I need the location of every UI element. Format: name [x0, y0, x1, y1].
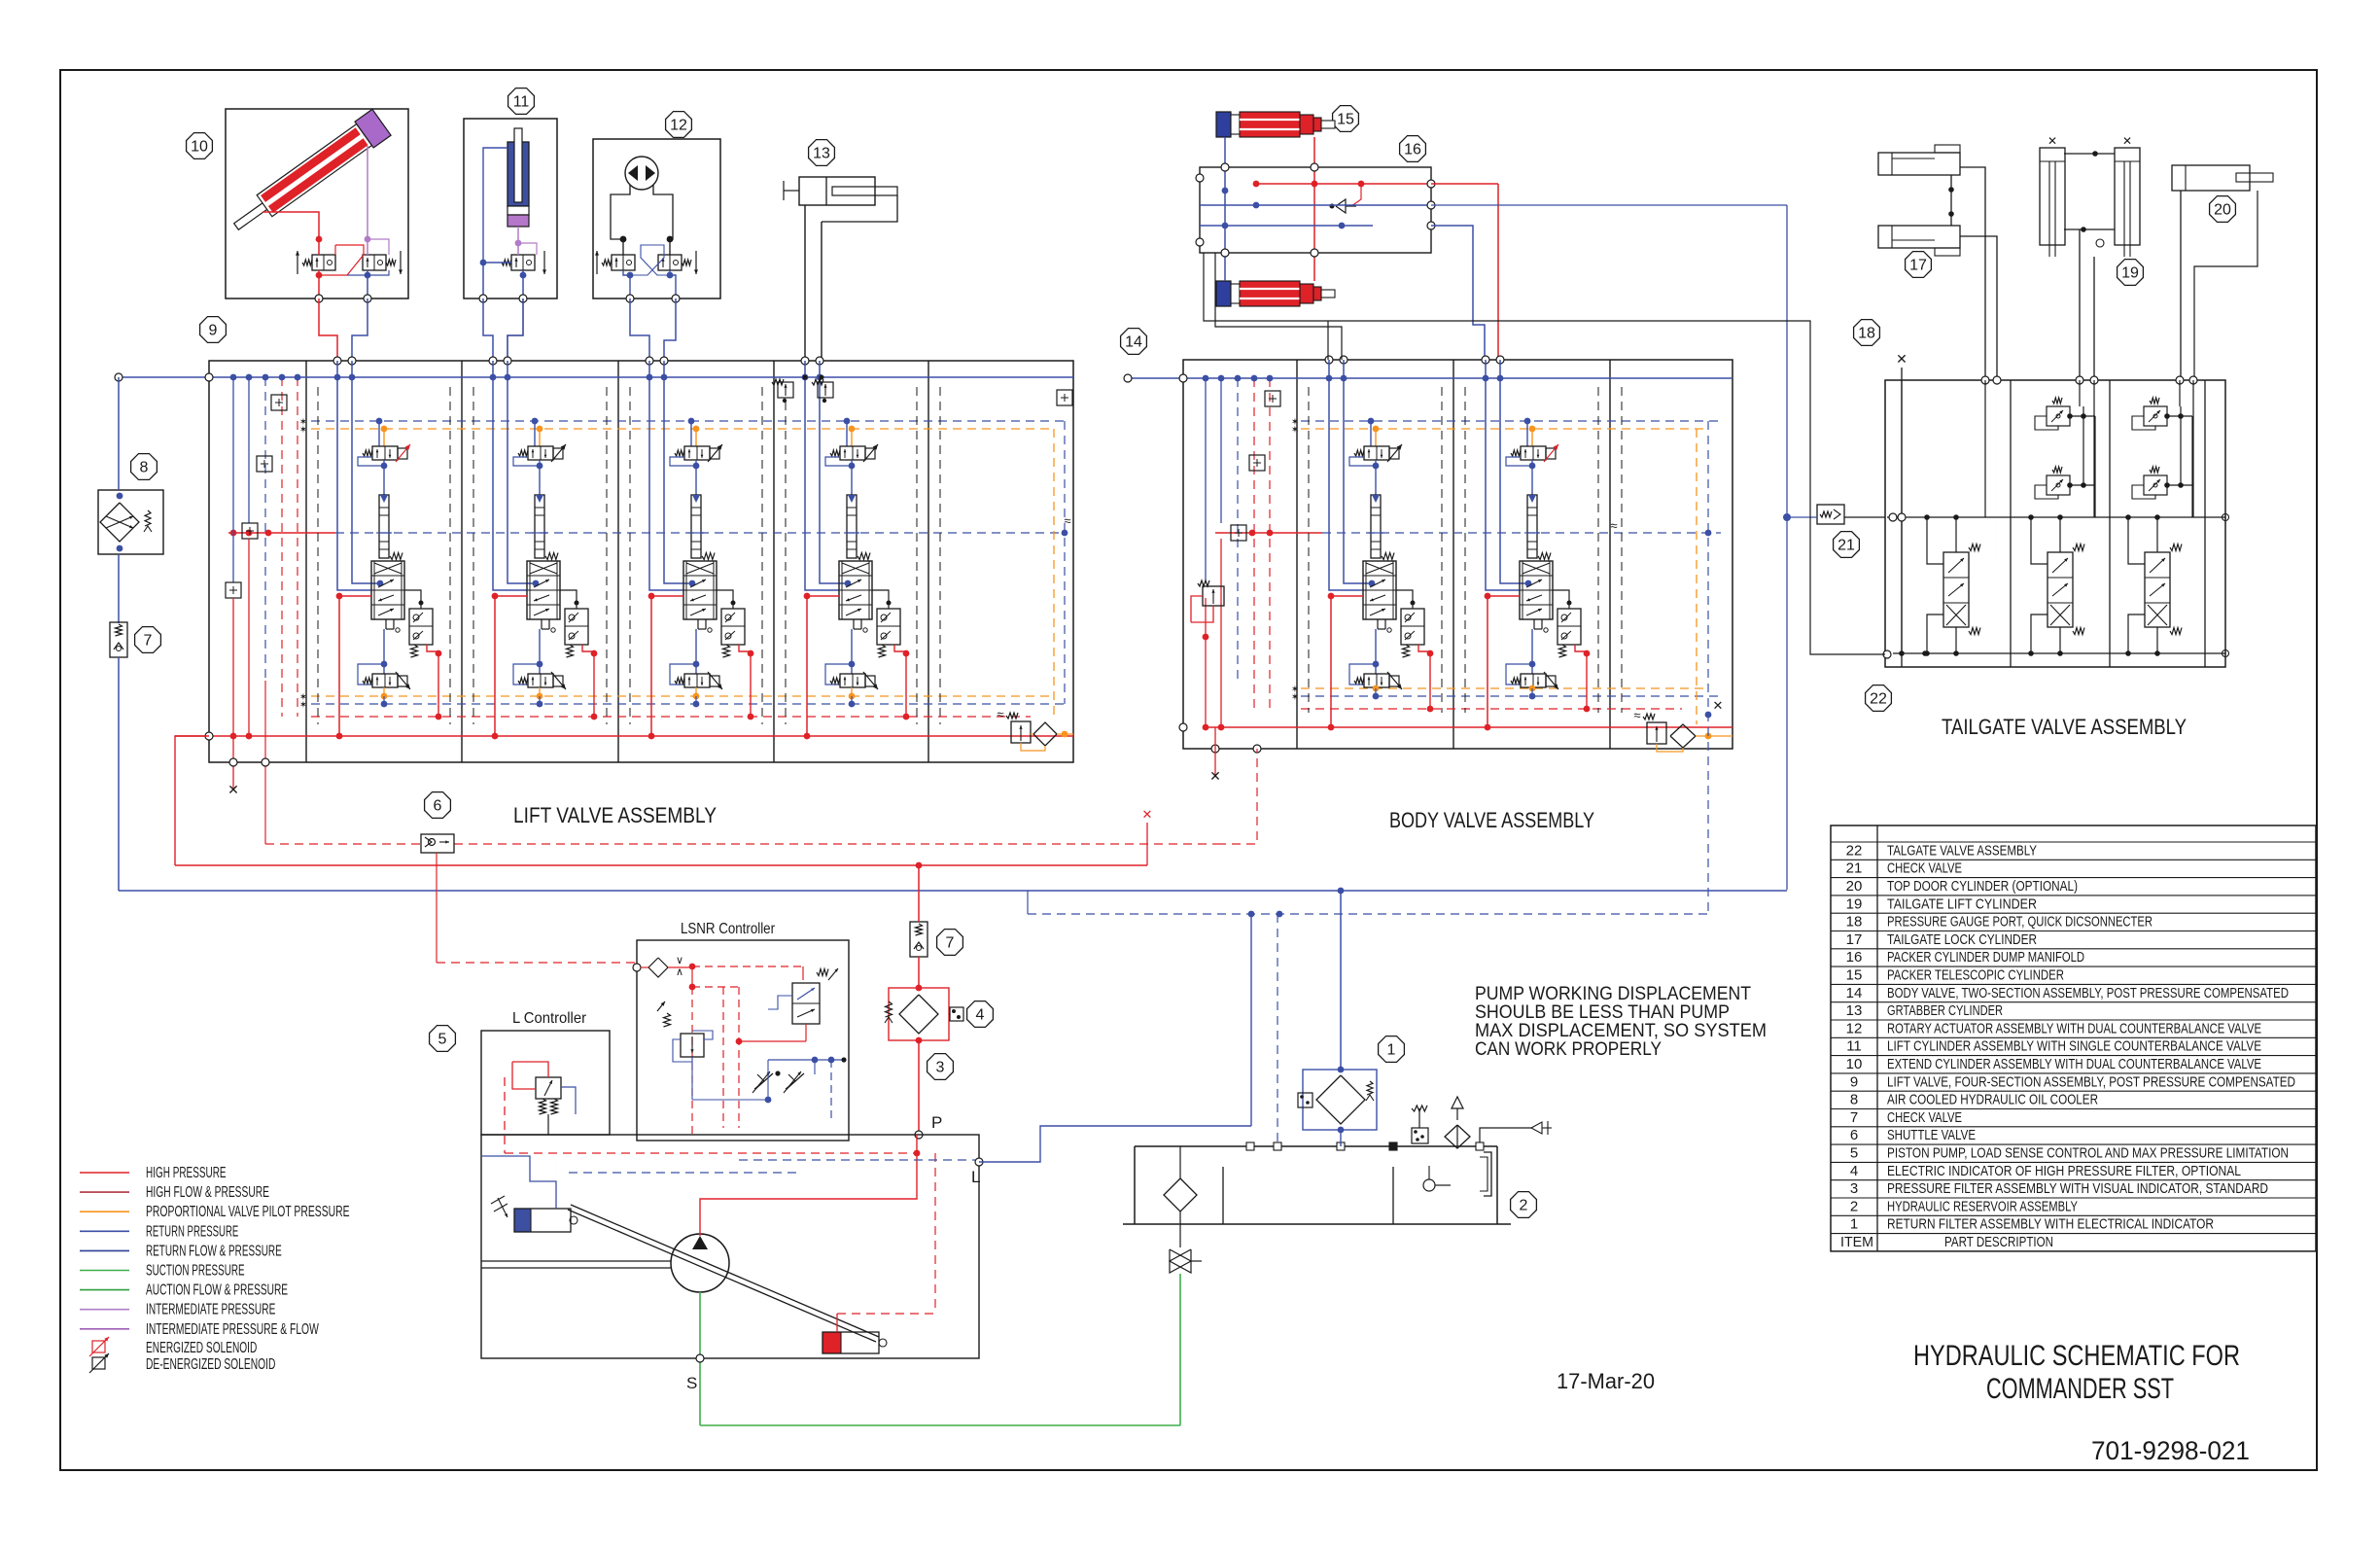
- svg-text:6: 6: [1850, 1127, 1858, 1143]
- svg-text:5: 5: [1850, 1145, 1858, 1162]
- svg-text:✕: ✕: [1142, 807, 1153, 822]
- svg-text:✶: ✶: [1291, 425, 1299, 436]
- svg-text:20: 20: [1846, 878, 1863, 895]
- svg-text:LSNR Controller: LSNR Controller: [681, 921, 776, 937]
- svg-text:9: 9: [1850, 1073, 1858, 1090]
- svg-text:PRESSURE GAUGE PORT, QUICK DIC: PRESSURE GAUGE PORT, QUICK DICSONNECTER: [1887, 914, 2152, 931]
- svg-text:PRESSURE FILTER ASSEMBLY WITH: PRESSURE FILTER ASSEMBLY WITH VISUAL IND…: [1887, 1180, 2268, 1197]
- svg-text:1: 1: [1850, 1216, 1858, 1233]
- svg-text:✕: ✕: [1713, 698, 1724, 713]
- svg-text:21: 21: [1846, 860, 1863, 877]
- svg-text:15: 15: [1337, 112, 1354, 128]
- svg-text:MAX DISPLACEMENT, SO SYSTEM: MAX DISPLACEMENT, SO SYSTEM: [1475, 1021, 1767, 1041]
- svg-text:7: 7: [144, 633, 153, 650]
- svg-text:2: 2: [1520, 1198, 1528, 1214]
- svg-text:22: 22: [1870, 691, 1887, 708]
- svg-text:∨: ∨: [676, 955, 683, 966]
- svg-text:13: 13: [1846, 1002, 1863, 1019]
- svg-text:4: 4: [1850, 1163, 1858, 1179]
- svg-text:✕: ✕: [2047, 134, 2057, 148]
- svg-text:14: 14: [1125, 334, 1142, 351]
- svg-text:COMMANDER SST: COMMANDER SST: [1986, 1373, 2174, 1405]
- svg-text:3: 3: [936, 1060, 945, 1076]
- svg-text:LIFT VALVE ASSEMBLY: LIFT VALVE ASSEMBLY: [513, 803, 717, 827]
- svg-text:P: P: [931, 1113, 943, 1132]
- svg-text:ITEM: ITEM: [1840, 1234, 1873, 1250]
- svg-text:5: 5: [438, 1032, 447, 1048]
- svg-text:1: 1: [1387, 1042, 1396, 1059]
- svg-text:✶: ✶: [299, 425, 307, 436]
- svg-text:✕: ✕: [2122, 134, 2132, 148]
- svg-text:3: 3: [1850, 1180, 1858, 1197]
- svg-text:AUCTION FLOW & PRESSURE: AUCTION FLOW & PRESSURE: [146, 1282, 288, 1299]
- svg-text:RETURN FILTER ASSEMBLY WITH EL: RETURN FILTER ASSEMBLY WITH ELECTRICAL I…: [1887, 1216, 2214, 1233]
- svg-text:LIFT CYLINDER ASSEMBLY WITH SI: LIFT CYLINDER ASSEMBLY WITH SINGLE COUNT…: [1887, 1038, 2261, 1055]
- svg-text:S: S: [686, 1374, 698, 1392]
- svg-text:PISTON PUMP, LOAD SENSE CONTRO: PISTON PUMP, LOAD SENSE CONTROL AND MAX …: [1887, 1145, 2289, 1162]
- svg-text:CHECK VALVE: CHECK VALVE: [1887, 1109, 1962, 1126]
- svg-text:PUMP WORKING DISPLACEMENT: PUMP WORKING DISPLACEMENT: [1475, 984, 1751, 1004]
- svg-text:13: 13: [813, 146, 830, 162]
- svg-text:BODY VALVE, TWO-SECTION ASSEMB: BODY VALVE, TWO-SECTION ASSEMBLY, POST P…: [1887, 985, 2289, 1001]
- svg-text:RETURN FLOW & PRESSURE: RETURN FLOW & PRESSURE: [146, 1243, 282, 1259]
- svg-text:17: 17: [1846, 931, 1863, 948]
- svg-text:TAILGATE LIFT CYLINDER: TAILGATE LIFT CYLINDER: [1887, 895, 2037, 912]
- svg-text:CHECK VALVE: CHECK VALVE: [1887, 860, 1962, 877]
- svg-text:22: 22: [1846, 842, 1863, 859]
- svg-text:HIGH PRESSURE: HIGH PRESSURE: [146, 1165, 227, 1181]
- svg-text:18: 18: [1858, 326, 1875, 342]
- svg-text:16: 16: [1846, 949, 1863, 966]
- svg-text:TALGATE VALVE ASSEMBLY: TALGATE VALVE ASSEMBLY: [1887, 842, 2037, 859]
- svg-text:8: 8: [140, 460, 149, 476]
- svg-text:7: 7: [1850, 1109, 1858, 1126]
- svg-text:PART DESCRIPTION: PART DESCRIPTION: [1944, 1234, 2053, 1250]
- svg-text:PROPORTIONAL VALVE PILOT PRESS: PROPORTIONAL VALVE PILOT PRESSURE: [146, 1204, 350, 1220]
- svg-text:12: 12: [670, 118, 687, 134]
- svg-text:16: 16: [1404, 142, 1421, 158]
- svg-text:DE-ENERGIZED SOLENOID: DE-ENERGIZED SOLENOID: [146, 1356, 275, 1373]
- svg-text:EXTEND CYLINDER ASSEMBLY WITH: EXTEND CYLINDER ASSEMBLY WITH DUAL COUNT…: [1887, 1056, 2261, 1072]
- svg-text:PACKER CYLINDER DUMP MANIFOLD: PACKER CYLINDER DUMP MANIFOLD: [1887, 949, 2084, 966]
- svg-text:20: 20: [2214, 202, 2231, 219]
- svg-text:19: 19: [2121, 265, 2139, 282]
- svg-text:11: 11: [513, 94, 530, 111]
- svg-text:SHUTTLE VALVE: SHUTTLE VALVE: [1887, 1127, 1976, 1143]
- svg-text:✶: ✶: [1291, 692, 1299, 703]
- svg-text:≈: ≈: [1064, 513, 1070, 528]
- svg-text:✶: ✶: [299, 700, 307, 711]
- svg-text:701-9298-021: 701-9298-021: [2091, 1436, 2250, 1465]
- svg-text:TOP DOOR CYLINDER (OPTIONAL): TOP DOOR CYLINDER (OPTIONAL): [1887, 878, 2078, 895]
- svg-text:18: 18: [1846, 914, 1863, 931]
- svg-text:L Controller: L Controller: [512, 1010, 587, 1027]
- svg-text:17: 17: [1909, 258, 1927, 274]
- svg-text:7: 7: [946, 935, 955, 952]
- svg-text:19: 19: [1846, 895, 1863, 912]
- svg-text:TAILGATE LOCK CYLINDER: TAILGATE LOCK CYLINDER: [1887, 931, 2037, 948]
- svg-text:ROTARY ACTUATOR ASSEMBLY WITH: ROTARY ACTUATOR ASSEMBLY WITH DUAL COUNT…: [1887, 1020, 2261, 1036]
- svg-text:HYDRAULIC SCHEMATIC FOR: HYDRAULIC SCHEMATIC FOR: [1913, 1340, 2240, 1372]
- svg-text:LIFT VALVE, FOUR-SECTION ASSEM: LIFT VALVE, FOUR-SECTION ASSEMBLY, POST …: [1887, 1073, 2295, 1090]
- svg-text:10: 10: [1846, 1056, 1863, 1072]
- svg-text:HIGH FLOW & PRESSURE: HIGH FLOW & PRESSURE: [146, 1184, 269, 1201]
- svg-text:INTERMEDIATE PRESSURE: INTERMEDIATE PRESSURE: [146, 1302, 275, 1318]
- svg-text:✕: ✕: [227, 782, 239, 797]
- svg-text:4: 4: [976, 1007, 985, 1024]
- svg-text:HYDRAULIC RESERVOIR ASSEMBLY: HYDRAULIC RESERVOIR ASSEMBLY: [1887, 1198, 2078, 1214]
- svg-text:11: 11: [1846, 1038, 1862, 1055]
- svg-text:INTERMEDIATE PRESSURE & FLOW: INTERMEDIATE PRESSURE & FLOW: [146, 1321, 319, 1338]
- svg-text:AIR COOLED HYDRAULIC OIL COOLE: AIR COOLED HYDRAULIC OIL COOLER: [1887, 1092, 2098, 1108]
- svg-text:RETURN PRESSURE: RETURN PRESSURE: [146, 1223, 238, 1240]
- svg-text:17-Mar-20: 17-Mar-20: [1557, 1369, 1655, 1393]
- svg-text:TAILGATE VALVE ASSEMBLY: TAILGATE VALVE ASSEMBLY: [1942, 715, 2187, 739]
- svg-text:2: 2: [1850, 1198, 1858, 1214]
- svg-text:≈: ≈: [1610, 518, 1617, 533]
- svg-text:15: 15: [1846, 967, 1863, 984]
- svg-text:SUCTION PRESSURE: SUCTION PRESSURE: [146, 1263, 245, 1280]
- svg-text:BODY VALVE ASSEMBLY: BODY VALVE ASSEMBLY: [1389, 808, 1594, 832]
- svg-text:12: 12: [1846, 1020, 1863, 1036]
- svg-text:∧: ∧: [676, 966, 683, 978]
- svg-text:ENERGIZED SOLENOID: ENERGIZED SOLENOID: [146, 1340, 257, 1356]
- svg-text:10: 10: [191, 139, 208, 156]
- svg-text:GRTABBER CYLINDER: GRTABBER CYLINDER: [1887, 1002, 2003, 1019]
- svg-text:≈: ≈: [1633, 708, 1640, 722]
- svg-text:≈: ≈: [997, 707, 1003, 721]
- svg-text:L: L: [971, 1168, 981, 1186]
- svg-text:21: 21: [1837, 538, 1855, 554]
- svg-text:SHOULB BE LESS THAN PUMP: SHOULB BE LESS THAN PUMP: [1475, 1002, 1730, 1023]
- svg-text:PACKER TELESCOPIC CYLINDER: PACKER TELESCOPIC CYLINDER: [1887, 967, 2064, 984]
- svg-text:✕: ✕: [1209, 768, 1221, 784]
- svg-text:14: 14: [1846, 985, 1863, 1001]
- svg-text:9: 9: [209, 323, 218, 339]
- svg-text:6: 6: [434, 798, 442, 815]
- svg-text:✕: ✕: [1896, 351, 1907, 367]
- svg-text:ELECTRIC INDICATOR OF HIGH PRE: ELECTRIC INDICATOR OF HIGH PRESSURE FILT…: [1887, 1163, 2241, 1179]
- svg-text:8: 8: [1850, 1092, 1858, 1108]
- svg-text:CAN WORK PROPERLY: CAN WORK PROPERLY: [1475, 1039, 1662, 1060]
